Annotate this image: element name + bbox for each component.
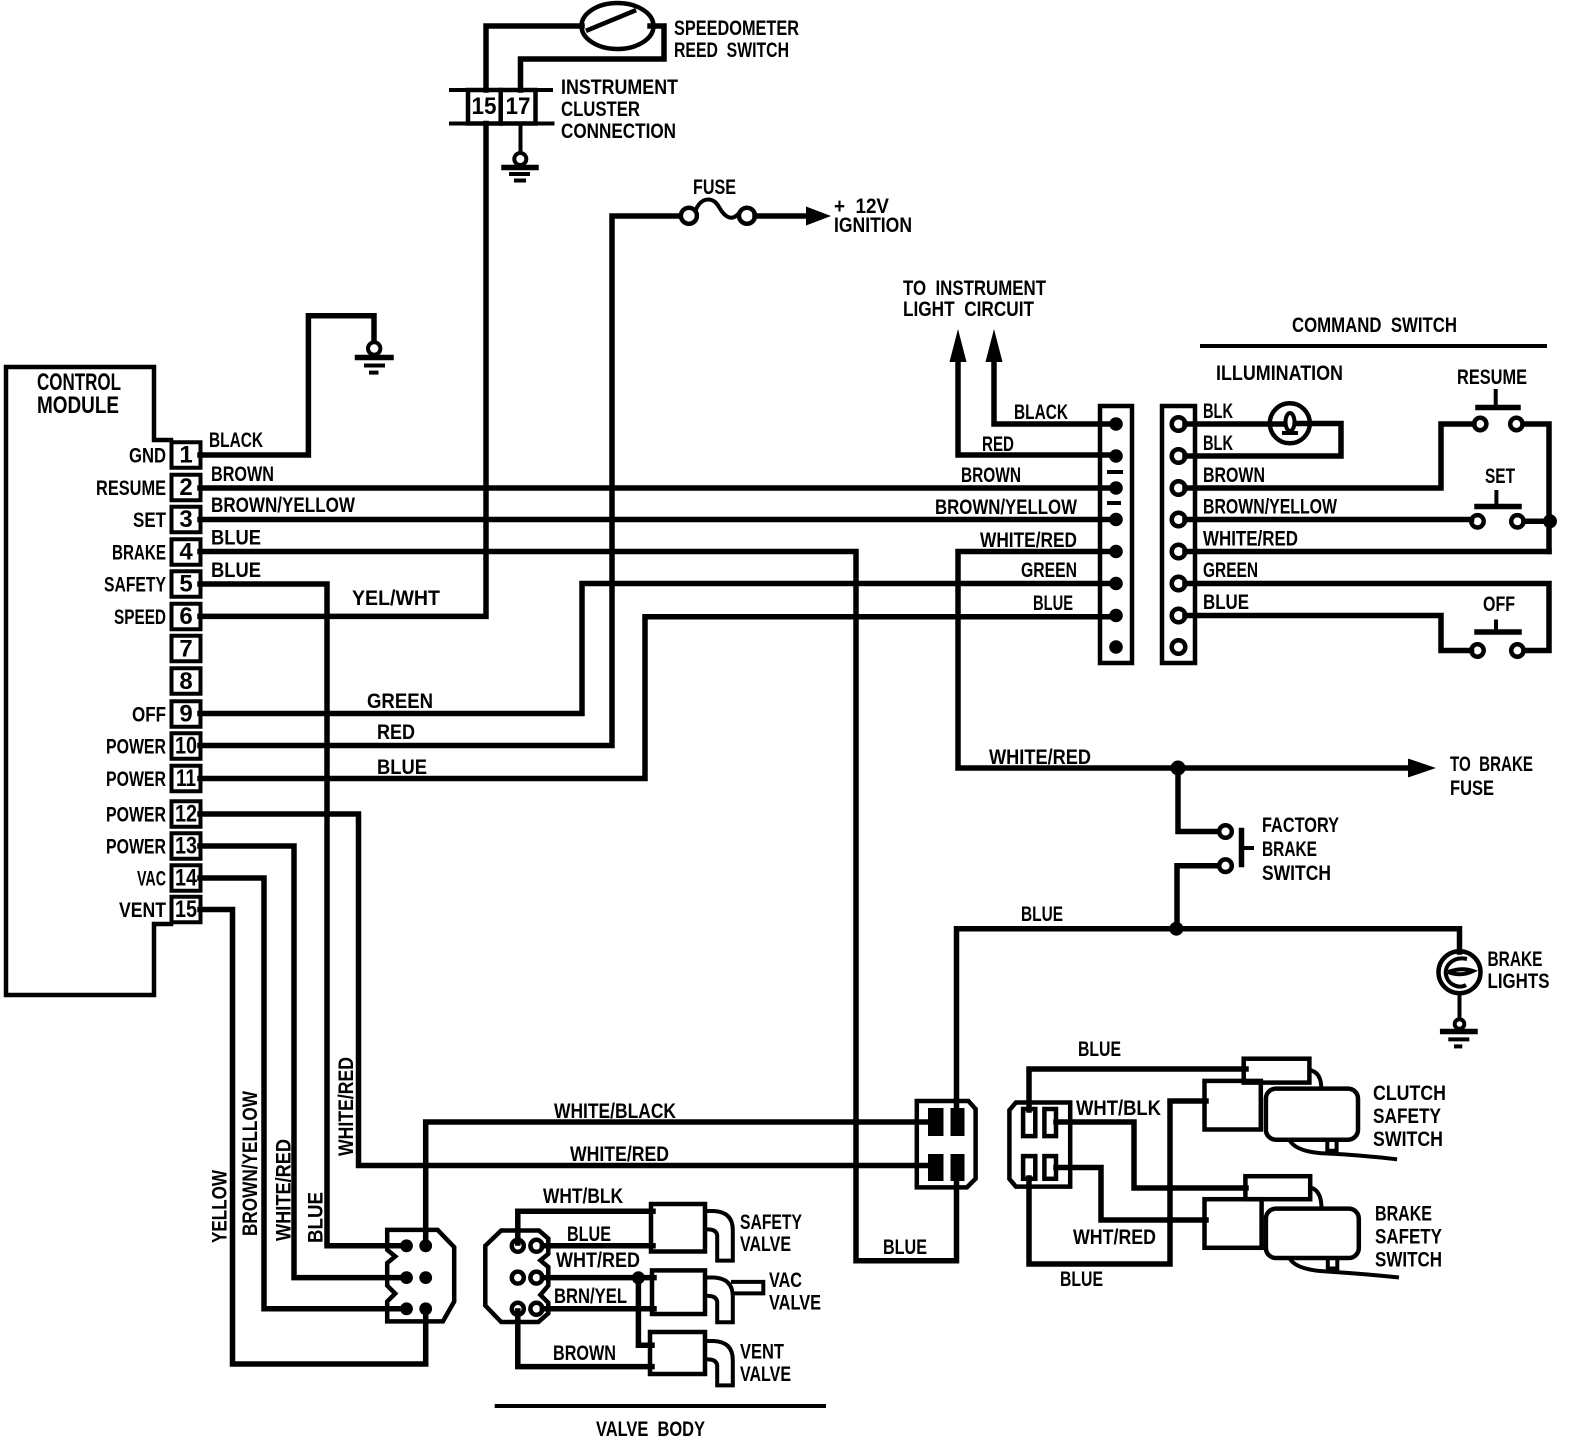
pin 7 [172,636,201,662]
svg-text:REED SWITCH: REED SWITCH [674,38,789,62]
pin 3 [172,507,201,533]
wire WHITE/RED to switch common [1185,549,1549,555]
svg-text:IGNITION: IGNITION [834,213,912,237]
wire lamp to ground [1458,993,1462,1019]
wire BLUE to clutch safety switch (lower) [1029,1101,1206,1264]
pin 14 [172,865,201,891]
wire fuse to +12V ignition [755,213,808,219]
svg-text:BROWN: BROWN [553,1341,616,1365]
svg-text:13: 13 [175,833,197,860]
svg-text:BLK: BLK [1203,431,1233,455]
wire pin 14 BROWN/YELLOW [200,878,402,1309]
svg-text:MODULE: MODULE [37,392,119,419]
svg-text:9: 9 [179,701,192,728]
svg-text:BROWN: BROWN [961,463,1021,487]
svg-text:YEL/WHT: YEL/WHT [352,586,440,610]
wire RED to instrument light arrow [958,360,1112,455]
svg-text:BLUE: BLUE [883,1235,927,1259]
svg-text:BLUE: BLUE [211,526,261,550]
svg-text:VAC: VAC [137,867,166,891]
wire WHITE/RED to brake fuse [958,552,1410,769]
wire brake switch to BLUE net [1177,866,1218,929]
wire BLUE to safety valve [542,1243,653,1249]
svg-text:SAFETY: SAFETY [740,1210,802,1234]
wire pin 10 RED to fuse [200,216,680,746]
svg-text:SAFETY: SAFETY [104,573,166,597]
wire BLK to illumination lamp [1185,421,1284,427]
wire wht/red branch to vent valve [638,1278,652,1345]
svg-text:SAFETY: SAFETY [1373,1104,1441,1128]
svg-text:COMMAND SWITCH: COMMAND SWITCH [1292,313,1457,337]
svg-text:BRAKE: BRAKE [1262,837,1317,861]
clutch safety switch [1244,1059,1310,1083]
wire WHT/BLK to brake safety switch [1056,1122,1246,1188]
pin 9 [172,701,201,727]
wire BLUE brake light net [957,929,1460,1112]
connector (command switch side, 8 pins) [1162,406,1195,663]
svg-text:BROWN: BROWN [1203,463,1265,487]
wire WHITE/BLACK [426,1122,932,1248]
wire cluster 15 riser (YEL/WHT) down to pin 6 [200,124,486,617]
svg-text:BLUE: BLUE [1078,1037,1121,1061]
svg-text:BROWN/YELLOW: BROWN/YELLOW [238,1090,262,1236]
svg-text:GREEN: GREEN [367,689,433,713]
connector (valve body, 6 pins) [485,1231,548,1323]
svg-text:1: 1 [179,442,192,469]
svg-text:SET: SET [1485,464,1515,488]
wire GREEN to off switch [1185,584,1549,651]
svg-text:SWITCH: SWITCH [1373,1127,1443,1151]
wire pin 15 YELLOW [200,910,426,1365]
wire BLUE to clutch safety switch [1029,1069,1246,1110]
svg-text:VENT: VENT [740,1340,784,1364]
svg-text:VALVE: VALVE [740,1232,791,1256]
svg-text:SET: SET [133,508,166,532]
wire BRN/YEL to vac valve [542,1306,654,1312]
svg-text:WHT/BLK: WHT/BLK [543,1184,623,1208]
pin 15 [172,897,201,923]
wire WHT/BLK to safety valve [518,1211,653,1243]
wire cluster 17 to ground [519,124,523,153]
wire pin 11 BLUE [200,617,1112,779]
svg-text:12: 12 [175,801,197,828]
svg-text:FACTORY: FACTORY [1262,813,1339,837]
wire pin 12 WHITE/RED [200,814,932,1166]
svg-text:WHT/RED: WHT/RED [1073,1225,1156,1249]
svg-text:GREEN: GREEN [1021,558,1077,582]
svg-text:WHITE/RED: WHITE/RED [272,1139,296,1241]
svg-text:POWER: POWER [106,767,166,791]
svg-text:POWER: POWER [106,803,166,827]
svg-text:BROWN/YELLOW: BROWN/YELLOW [935,495,1078,519]
svg-text:WHITE/RED: WHITE/RED [570,1142,669,1166]
junction (wht/red) [632,1271,645,1284]
svg-text:6: 6 [179,603,192,630]
svg-text:BROWN/YELLOW: BROWN/YELLOW [1203,495,1338,519]
wire junction to factory brake switch [1178,768,1218,832]
connector (brake harness, 4 pins) [917,1101,976,1187]
brake safety switch [1245,1176,1310,1199]
wire BROWN to resume switch [1185,424,1474,488]
pin 5 [172,571,201,597]
svg-text:SWITCH: SWITCH [1262,861,1331,885]
svg-text:FUSE: FUSE [1450,776,1494,800]
wire BROWN to vent valve [518,1311,652,1367]
svg-text:8: 8 [179,668,192,695]
svg-text:BLUE: BLUE [1060,1267,1103,1291]
pin 13 [172,833,201,859]
svg-text:BRN/YEL: BRN/YEL [554,1284,627,1308]
junction (brake fuse / brake switch) [1171,761,1186,776]
pin 2 [172,475,201,501]
illumination lamp [1270,403,1310,443]
connector (safety switches, 4 pins) [1009,1103,1070,1187]
svg-text:7: 7 [179,636,192,663]
svg-text:BLACK: BLACK [1014,400,1068,424]
safety valve [651,1204,705,1252]
svg-text:BROWN/YELLOW: BROWN/YELLOW [211,493,356,517]
wire pin 5 BLUE [200,584,402,1246]
wire pin 13 WHITE/RED [200,846,402,1278]
svg-text:VALVE: VALVE [769,1291,821,1315]
svg-text:CLUSTER: CLUSTER [561,97,640,121]
svg-text:RESUME: RESUME [96,476,166,500]
svg-text:VALVE BODY: VALVE BODY [596,1417,705,1441]
svg-text:BLUE: BLUE [1203,590,1249,614]
svg-text:BLUE: BLUE [1021,902,1063,926]
svg-text:INSTRUMENT: INSTRUMENT [561,75,678,99]
wire pin 1 BLACK to ground [200,316,374,455]
svg-text:CONNECTION: CONNECTION [561,119,676,143]
pin 11 [172,766,201,792]
svg-text:BLUE: BLUE [377,755,427,779]
wire resume to junction [1523,424,1549,552]
factory brake switch [1219,825,1232,838]
pin 4 [172,539,201,565]
wire pin 9 GREEN [200,584,1112,714]
svg-text:3: 3 [179,506,192,533]
ground (control module) [368,342,380,354]
svg-text:LIGHT CIRCUIT: LIGHT CIRCUIT [903,297,1034,321]
wire BLACK to instrument light arrow [994,360,1112,424]
svg-text:WHITE/RED: WHITE/RED [989,745,1091,769]
svg-text:11: 11 [176,765,196,792]
pin 6 [172,604,201,630]
svg-text:WHITE/RED: WHITE/RED [980,528,1077,552]
junction (blue / brake switch) [1169,922,1183,936]
svg-text:RED: RED [377,720,415,744]
wire BLK 2 from lamp [1185,424,1341,457]
svg-text:POWER: POWER [106,835,166,859]
svg-text:VALVE: VALVE [740,1362,791,1386]
svg-text:4: 4 [179,539,193,566]
wire BROWN/YELLOW to set switch [1185,517,1472,523]
svg-text:WHITE/RED: WHITE/RED [1203,527,1298,551]
svg-text:BLUE: BLUE [304,1192,328,1243]
svg-text:FUSE: FUSE [693,175,736,199]
wire BLUE to off switch [1185,616,1472,651]
svg-text:WHT/RED: WHT/RED [556,1248,640,1272]
svg-text:SPEED: SPEED [114,605,166,629]
pin 12 [172,801,201,827]
speedometer reed switch [582,3,654,49]
svg-text:BLUE: BLUE [211,558,261,582]
svg-text:WHITE/RED: WHITE/RED [334,1057,358,1156]
instrument cluster connection [468,90,536,124]
pin 1 [172,442,201,468]
svg-text:15: 15 [472,93,497,120]
svg-text:17: 17 [506,93,531,120]
svg-text:YELLOW: YELLOW [208,1169,232,1243]
connector (control module harness, 6 pins) [387,1230,454,1322]
svg-text:TO BRAKE: TO BRAKE [1450,752,1533,776]
svg-text:OFF: OFF [132,703,166,727]
wire WHT/RED to brake safety switch [1056,1168,1206,1221]
wire speedometer left to cluster pin 15 [486,26,582,90]
svg-text:WHT/BLK: WHT/BLK [1076,1096,1161,1120]
svg-text:SWITCH: SWITCH [1375,1248,1442,1272]
ground (cluster) [514,153,526,165]
control module outline [6,367,171,995]
pin 8 [172,668,201,694]
svg-text:10: 10 [175,733,197,760]
svg-text:POWER: POWER [106,735,166,759]
brake lights lamp [1439,951,1481,993]
junction [1543,514,1557,528]
svg-text:GREEN: GREEN [1203,558,1258,582]
svg-text:BLACK: BLACK [209,428,263,452]
svg-text:14: 14 [175,865,198,892]
svg-text:2: 2 [179,474,192,501]
wire pin 4 BLUE [200,552,957,1261]
vac valve [652,1270,705,1314]
ground (brake lights) [1455,1019,1465,1029]
pin 10 [172,733,201,759]
svg-text:15: 15 [175,896,197,923]
svg-text:BLUE: BLUE [567,1222,611,1246]
wire speedometer right to cluster pin 17 [521,26,665,90]
svg-text:LIGHTS: LIGHTS [1488,969,1550,993]
svg-text:RESUME: RESUME [1457,365,1527,389]
svg-text:ILLUMINATION: ILLUMINATION [1216,361,1343,385]
svg-text:BRAKE: BRAKE [112,541,166,565]
svg-text:BRAKE: BRAKE [1375,1202,1432,1226]
svg-text:GND: GND [129,444,166,468]
wire pin 2 BROWN [200,485,1112,491]
svg-text:SPEEDOMETER: SPEEDOMETER [674,16,799,40]
svg-text:CLUTCH: CLUTCH [1373,1081,1446,1105]
connector (harness side, 8 pins) [1100,406,1132,663]
svg-text:5: 5 [179,571,192,598]
svg-text:SAFETY: SAFETY [1375,1225,1442,1249]
valve body bracket [495,1404,826,1408]
wire WHT/RED to vac valve [542,1275,654,1281]
svg-text:RED: RED [982,432,1014,456]
vent valve [650,1332,705,1374]
svg-text:BROWN: BROWN [211,462,274,486]
wire pin 3 BROWN/YELLOW [200,517,1112,523]
svg-text:BLK: BLK [1203,399,1233,423]
svg-text:VAC: VAC [769,1268,802,1292]
svg-text:BRAKE: BRAKE [1488,947,1543,971]
svg-text:BLUE: BLUE [1033,591,1073,615]
svg-text:OFF: OFF [1483,592,1515,616]
svg-text:VENT: VENT [119,898,166,922]
